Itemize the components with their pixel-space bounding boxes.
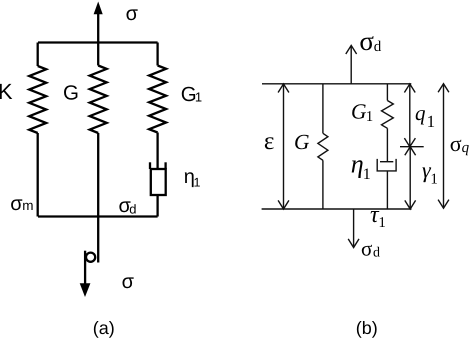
svg-text:G: G: [294, 130, 310, 154]
svg-text:K: K: [0, 79, 13, 104]
svg-text:(b): (b): [356, 318, 378, 338]
svg-text:σ: σ: [126, 3, 139, 25]
svg-text:G: G: [63, 82, 79, 105]
svg-text:ε: ε: [264, 128, 275, 155]
svg-text:1: 1: [366, 109, 374, 125]
svg-text:m: m: [22, 198, 33, 213]
svg-text:d: d: [374, 39, 382, 55]
svg-text:1: 1: [194, 176, 201, 190]
svg-text:1: 1: [363, 166, 371, 183]
svg-text:q: q: [462, 140, 470, 156]
svg-text:1: 1: [195, 90, 202, 105]
svg-text:σ: σ: [361, 237, 372, 261]
svg-text:1: 1: [430, 172, 438, 188]
svg-text:G: G: [351, 100, 367, 124]
svg-text:σ: σ: [122, 271, 135, 293]
svg-text:d: d: [129, 202, 136, 217]
svg-text:σ: σ: [359, 26, 374, 56]
svg-text:d: d: [373, 246, 380, 261]
svg-text:1: 1: [378, 215, 386, 231]
svg-text:1: 1: [427, 112, 436, 131]
svg-text:q: q: [415, 101, 426, 125]
svg-text:(a): (a): [93, 318, 115, 338]
svg-text:σ: σ: [450, 131, 462, 156]
